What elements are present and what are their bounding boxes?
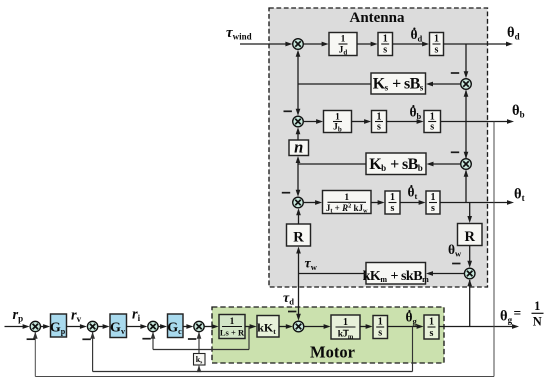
summing junction S6 bbox=[464, 268, 475, 279]
minus sign at S5 top input bbox=[282, 192, 290, 194]
wire speed feedback from thetadot_g node down and left bbox=[90, 327, 412, 372]
svg-text:R: R bbox=[293, 230, 304, 246]
wire S6 to block kKm+skBm bbox=[426, 271, 464, 276]
label theta_t output bbox=[514, 187, 525, 204]
svg-text:N: N bbox=[533, 315, 542, 329]
wire integrator to integrator row1 bbox=[393, 42, 430, 47]
wire node up into S1 bottom bbox=[296, 50, 301, 84]
label r_i bbox=[132, 307, 141, 324]
wire S11 to block 1/kJm bbox=[304, 324, 331, 329]
svg-text:rp: rp bbox=[13, 307, 24, 324]
wire branch theta_d down into sum S2 bbox=[464, 44, 469, 78]
wire position feedback from theta_b node down and left to S7 bbox=[33, 122, 494, 377]
wire tau_d node down into S11 bbox=[296, 274, 301, 321]
summing junction S3 bbox=[293, 116, 304, 127]
block Gc bbox=[167, 314, 183, 338]
wire Gv to sum S9 bbox=[127, 324, 148, 329]
label theta_d output bbox=[507, 25, 520, 42]
wire row1 output theta_d bbox=[444, 42, 514, 47]
svg-text:kKm + skBm: kKm + skBm bbox=[363, 269, 429, 284]
antenna box title bbox=[349, 10, 405, 26]
block n gear ratio bbox=[289, 138, 309, 157]
wire S4 to block Kb+sBb bbox=[427, 162, 461, 167]
wire Gp to sum S8 bbox=[67, 324, 87, 329]
wire block ks up into S10 bottom bbox=[197, 332, 202, 354]
wire row3 output theta_t bbox=[440, 200, 514, 205]
minus sign at S4 top input bbox=[451, 151, 459, 153]
minus sign at S11 top input bbox=[288, 311, 296, 313]
svg-text:1: 1 bbox=[383, 34, 388, 45]
minus sign at S9 bottom input bbox=[142, 338, 150, 340]
svg-text:s: s bbox=[430, 122, 434, 133]
wire integrator to integrator motor with speed node bbox=[388, 324, 424, 329]
block kKm+skBm bbox=[363, 263, 429, 285]
wire node down into S3 top bbox=[296, 84, 301, 116]
block kKt bbox=[257, 316, 279, 338]
minus sign at S6 top input bbox=[452, 263, 460, 265]
svg-text:s: s bbox=[383, 45, 387, 56]
svg-text:Ls + R: Ls + R bbox=[220, 328, 245, 338]
svg-text:Antenna: Antenna bbox=[349, 10, 405, 26]
svg-text:s: s bbox=[391, 203, 395, 214]
wire block R left up into S5 bottom bbox=[296, 208, 301, 224]
wire tau_wind input to sum S1 bbox=[240, 42, 292, 47]
wire block R down into S6 bbox=[467, 246, 472, 268]
block Ks+sBs bbox=[371, 73, 426, 94]
svg-text:θd: θd bbox=[507, 25, 520, 42]
block R right bbox=[458, 224, 483, 246]
wire r_p input into sum S7 bbox=[5, 324, 30, 329]
block Kb+sBb bbox=[366, 153, 426, 175]
wire node up into block n bbox=[296, 156, 301, 164]
block integrator 1/s (row3 first) bbox=[385, 191, 400, 214]
wire S3 to block 1/Jb bbox=[303, 119, 323, 124]
block ks bbox=[194, 354, 206, 366]
wire Kb+sBb output to node column bbox=[298, 163, 366, 165]
label theta_w bbox=[448, 242, 462, 259]
svg-text:Kb + sBb: Kb + sBb bbox=[369, 156, 423, 173]
wire 1/kJm to integrator bbox=[360, 324, 373, 329]
wire 1/Jb to integrator bbox=[352, 119, 372, 124]
svg-text:1: 1 bbox=[434, 34, 439, 45]
label r_v bbox=[71, 308, 82, 325]
svg-text:Motor: Motor bbox=[310, 343, 355, 362]
block 1/(Ls+R) bbox=[219, 315, 245, 339]
svg-text:rv: rv bbox=[71, 308, 82, 325]
wire to integrator row3 bbox=[371, 200, 385, 205]
summing junction S5 bbox=[293, 197, 304, 208]
summing junction S2 bbox=[461, 79, 472, 90]
svg-text:Ks + sBs: Ks + sBs bbox=[373, 76, 424, 93]
svg-text:ri: ri bbox=[132, 307, 141, 324]
wire Gc to sum S10 bbox=[183, 324, 193, 329]
label r_p bbox=[13, 307, 24, 324]
wire integrator to integrator row3 bbox=[400, 200, 426, 205]
block integrator 1/s (motor first) bbox=[373, 316, 388, 339]
svg-text:1: 1 bbox=[335, 112, 340, 122]
block integrator 1/s (row2 first) bbox=[372, 111, 387, 133]
svg-text:θg: θg bbox=[500, 309, 513, 326]
wire theta_g branch up into S6 bottom bbox=[467, 279, 472, 326]
svg-text:s: s bbox=[430, 328, 434, 339]
wire S4 bottom to theta_t node bbox=[464, 170, 469, 203]
wire speed node up into block ks bbox=[197, 365, 202, 372]
minus sign at S8 bottom input bbox=[82, 338, 90, 340]
wire S2 to block Ks+sBs bbox=[426, 82, 461, 87]
wire node down into S5 top bbox=[296, 164, 301, 197]
motor box title bbox=[310, 343, 355, 362]
svg-text:n: n bbox=[294, 138, 303, 157]
svg-text:1: 1 bbox=[341, 35, 346, 45]
minus sign at S2 top input bbox=[451, 72, 459, 74]
wire S7 to block Gp bbox=[41, 324, 51, 329]
label thetadot_b bbox=[410, 105, 422, 122]
wire integrator to integrator row2 bbox=[387, 119, 424, 124]
svg-text:τwind: τwind bbox=[226, 25, 252, 41]
minus sign at S7 bottom input bbox=[27, 338, 35, 340]
block R left bbox=[287, 224, 311, 246]
block integrator 1/s (row3 second) bbox=[426, 191, 440, 214]
label tau_d bbox=[283, 291, 294, 306]
label tau_wind bbox=[226, 25, 252, 41]
wire 1/(Ls+R) to kKt with current node bbox=[245, 324, 257, 329]
summing junction S7 bbox=[30, 321, 40, 331]
wire theta_t node down into block R right bbox=[467, 203, 472, 224]
wire motor output theta_g bbox=[439, 324, 519, 329]
block 1/(Jt+R2kJw) bbox=[323, 191, 372, 215]
summing junction S10 bbox=[194, 321, 204, 331]
block 1/kJm bbox=[331, 315, 360, 340]
label thetadot_t bbox=[408, 185, 418, 202]
wire S9 to block Gc bbox=[158, 324, 167, 329]
svg-text:1: 1 bbox=[429, 317, 434, 328]
block Gp bbox=[50, 314, 67, 337]
block integrator 1/s (motor second) bbox=[424, 315, 439, 339]
svg-text:s: s bbox=[435, 45, 439, 56]
svg-text:1: 1 bbox=[534, 299, 540, 313]
block integrator 1/s (row1 first) bbox=[378, 33, 393, 56]
summing junction S9 bbox=[148, 321, 158, 331]
wire S5 to block 1/(Jt+R2kJw) bbox=[303, 200, 322, 205]
svg-text:1: 1 bbox=[390, 192, 395, 203]
block 1/Jb bbox=[324, 111, 352, 134]
wire block n up into S3 bottom bbox=[296, 127, 301, 140]
block Gv bbox=[110, 314, 127, 338]
wire current feedback from Ls+R output down to S9 bbox=[151, 327, 249, 350]
svg-text:R: R bbox=[464, 229, 475, 245]
motor subsystem box bbox=[212, 307, 444, 363]
wire kKt to sum S11 bbox=[279, 324, 293, 329]
wire kKm+skBm output to tau_w node bbox=[299, 273, 367, 275]
svg-text:1: 1 bbox=[230, 317, 235, 327]
svg-text:1: 1 bbox=[378, 317, 383, 328]
wire tau_w node up into block R left bbox=[296, 247, 301, 274]
svg-text:s: s bbox=[378, 328, 382, 339]
wire S1 to block 1/Jd bbox=[303, 42, 328, 47]
label theta_g equals 1 over N bbox=[500, 299, 544, 329]
label thetadot_g bbox=[406, 310, 418, 327]
summing junction S11 bbox=[293, 321, 304, 332]
summing junction S4 bbox=[461, 159, 472, 170]
wire row2 output theta_b bbox=[441, 119, 515, 124]
svg-text:1: 1 bbox=[431, 192, 436, 203]
label thetadot_d bbox=[411, 27, 423, 44]
label tau_w bbox=[305, 257, 318, 272]
svg-text:θt: θt bbox=[514, 187, 525, 204]
wire S2 bottom to S4 top through theta_b node bbox=[464, 90, 469, 159]
svg-text:θb: θb bbox=[512, 103, 525, 120]
summing junction S1 bbox=[293, 39, 304, 50]
minus sign at S3 top input bbox=[284, 110, 292, 112]
wire S8 to block Gv bbox=[98, 324, 110, 329]
block integrator 1/s (row2 second) bbox=[424, 111, 441, 133]
block 1/Jd bbox=[329, 33, 357, 57]
wire S10 to block 1/(Ls+R) bbox=[204, 324, 218, 329]
svg-text:=: = bbox=[514, 306, 522, 321]
svg-text:s: s bbox=[431, 203, 435, 214]
label theta_b output bbox=[512, 103, 525, 120]
svg-text:s: s bbox=[377, 122, 381, 133]
minus sign at S10 bottom input bbox=[188, 338, 196, 340]
antenna subsystem box bbox=[269, 8, 488, 287]
svg-text:τd: τd bbox=[283, 291, 294, 306]
summing junction S8 bbox=[87, 321, 97, 331]
wire 1/Jd to integrator bbox=[357, 42, 378, 47]
svg-text:1: 1 bbox=[343, 317, 348, 328]
svg-text:Jt + R2 kJw: Jt + R2 kJw bbox=[326, 203, 368, 215]
block integrator 1/s (row1 second) bbox=[430, 33, 444, 56]
wire Ks+sBs output to node column bbox=[298, 83, 371, 85]
